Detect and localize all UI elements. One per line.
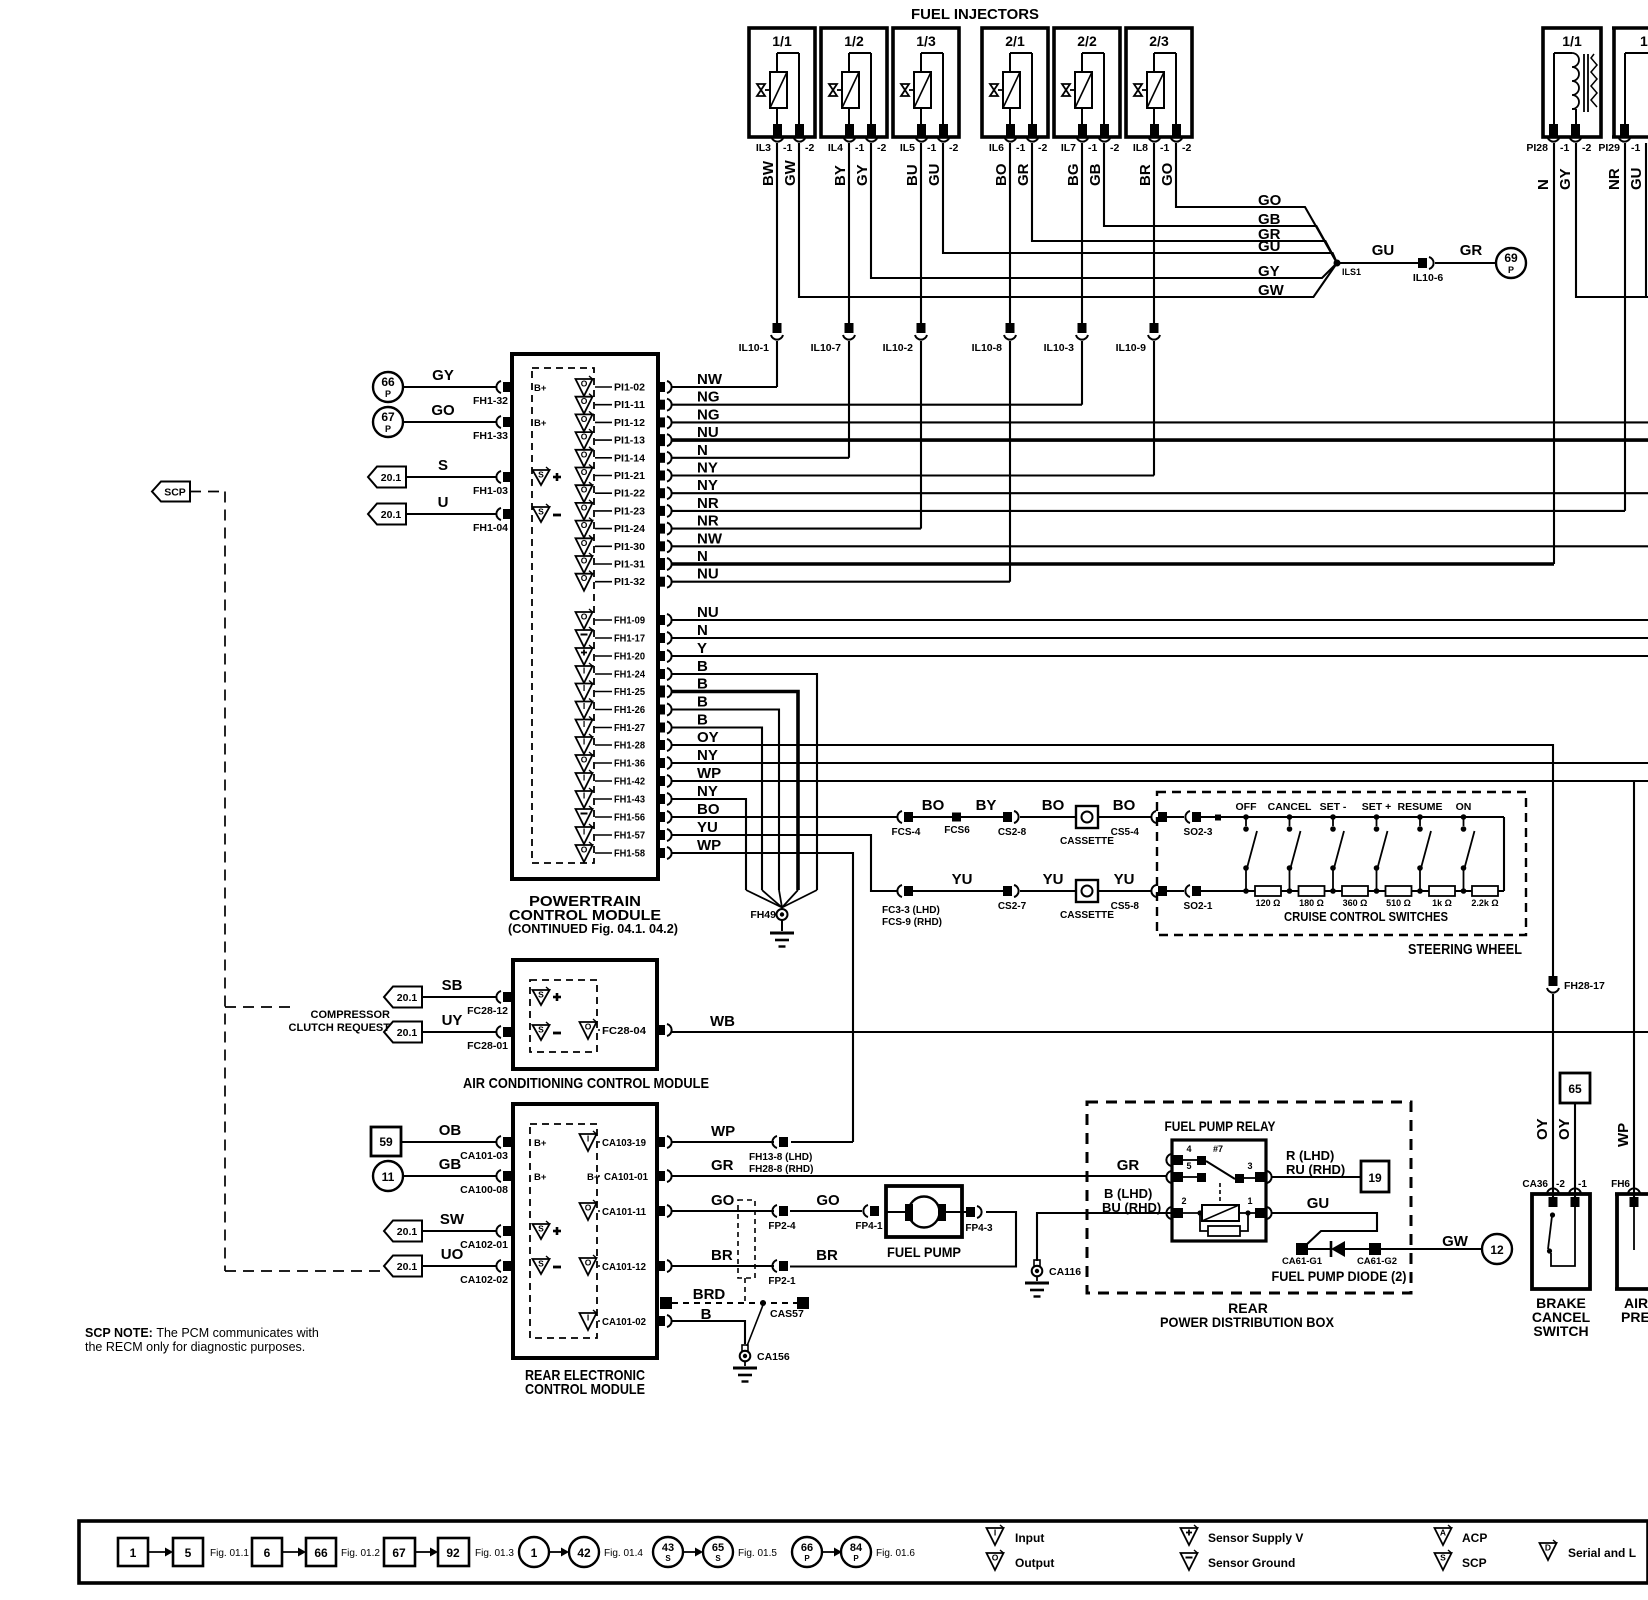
RECM pin CA101-01: [587, 1170, 672, 1183]
svg-text:SCP: SCP: [1462, 1556, 1487, 1570]
ground CA116: [1025, 1260, 1081, 1297]
node 20.1 S: [368, 467, 406, 488]
svg-text:Serial and L: Serial and L: [1568, 1546, 1636, 1560]
svg-text:YU: YU: [1114, 871, 1135, 888]
svg-text:FH1-24: FH1-24: [614, 669, 645, 681]
connector CA100-08: [460, 1170, 512, 1196]
wire R/RU relay pin 3 to 19: [1271, 1176, 1361, 1178]
wire injector pin -1 to IL10-2: [920, 143, 922, 323]
svg-text:FCS6: FCS6: [944, 825, 970, 836]
note SCP NOTE: [85, 1326, 319, 1354]
connector CS2-8: [998, 811, 1027, 838]
op PCM box: [512, 354, 658, 879]
svg-text:CS5-8: CS5-8: [1111, 901, 1140, 912]
svg-text:-1: -1: [1578, 1179, 1587, 1190]
svg-text:CS2-7: CS2-7: [998, 901, 1027, 912]
wire GW diode to node 12: [1381, 1248, 1482, 1250]
wire N PI1-31 to coil PI28-1 (thick): [672, 562, 1554, 566]
svg-text:CLUTCH REQUEST: CLUTCH REQUEST: [289, 1022, 391, 1034]
svg-text:FC28-04: FC28-04: [602, 1025, 646, 1037]
svg-text:-2: -2: [805, 142, 814, 154]
svg-text:-1: -1: [783, 142, 792, 154]
svg-text:360 Ω: 360 Ω: [1343, 898, 1368, 908]
svg-text:CANCEL: CANCEL: [1268, 801, 1312, 813]
PCM pin PI1-30 (NW): [576, 535, 672, 555]
label REAR POWER DISTRIBUTION BOX: [1160, 1300, 1335, 1330]
node 12: [1482, 1234, 1512, 1264]
wire SB to FC28-12: [422, 996, 497, 998]
wire GO CA101-11 to FP2-4: [671, 1210, 774, 1212]
relay: fuel pump relay: [1165, 1118, 1277, 1241]
wire B FH1-27 to ground fan: [672, 728, 762, 891]
svg-text:CA116: CA116: [1049, 1266, 1081, 1278]
svg-text:BU: BU: [904, 164, 921, 186]
svg-text:PI1-32: PI1-32: [614, 576, 645, 588]
A/C control module box: [513, 960, 657, 1069]
diode CA61 fuel pump diode: [1282, 1241, 1397, 1267]
svg-text:O: O: [581, 396, 588, 406]
brake cancel switch (CA36): [1522, 1179, 1590, 1289]
svg-text:I: I: [583, 827, 585, 837]
wire BO FCS-4 to FCS6: [913, 816, 952, 818]
wire injector pin -1 to IL10-3: [1081, 143, 1083, 323]
splice FCS6: [944, 813, 970, 837]
svg-text:2.2k Ω: 2.2k Ω: [1471, 898, 1498, 908]
svg-text:66: 66: [381, 375, 395, 389]
wire OB 59 to CA101-03: [401, 1141, 497, 1143]
svg-text:RESUME: RESUME: [1398, 801, 1443, 813]
svg-text:B: B: [701, 1306, 712, 1323]
svg-text:Input: Input: [1015, 1531, 1044, 1545]
PCM pin FH1-43 (NY): [576, 788, 672, 808]
svg-text:GO: GO: [1258, 192, 1282, 209]
connector FH1-33: [473, 416, 512, 442]
connector SO2-1: [1167, 885, 1213, 912]
svg-text:NY: NY: [697, 460, 718, 477]
svg-text:OB: OB: [439, 1122, 462, 1139]
cruise control switches dashed box: [1157, 792, 1526, 935]
wire YU FC3-3 to CS2-7: [913, 890, 1003, 892]
wire NY FH1-36 to right edge: [672, 762, 1648, 764]
svg-text:65: 65: [1568, 1082, 1582, 1096]
fuel pump: [886, 1186, 962, 1260]
PCM pin PI1-14 (N): [576, 447, 672, 467]
svg-text:NW: NW: [697, 530, 723, 547]
svg-text:-2: -2: [1182, 142, 1191, 154]
svg-text:CA61-G2: CA61-G2: [1357, 1256, 1397, 1267]
switch SET +: [1362, 801, 1391, 894]
legend ACP symbol: [1435, 1525, 1488, 1545]
air pressure switch (FH6) partial: [1611, 1179, 1648, 1325]
fuel injector 1/3 (IL5): [893, 28, 959, 154]
svg-text:I: I: [994, 1528, 996, 1538]
wire GU ILS1 to IL10-6: [1340, 262, 1418, 264]
svg-text:Fig. 01.1: Fig. 01.1: [210, 1548, 249, 1559]
svg-text:GW: GW: [782, 159, 799, 186]
connector IL10-7: [811, 323, 855, 354]
svg-text:SB: SB: [442, 977, 463, 994]
svg-text:PI1-21: PI1-21: [614, 470, 645, 482]
PCM pin PI1-32 (NU): [576, 571, 672, 591]
svg-text:CASSETTE: CASSETTE: [1060, 909, 1114, 921]
wire B CA101-02 to ground CA156: [671, 1321, 745, 1344]
svg-text:P: P: [804, 1554, 810, 1563]
svg-text:69: 69: [1504, 251, 1518, 265]
rear electronic control module box: [513, 1104, 657, 1358]
svg-text:IL10-6: IL10-6: [1413, 272, 1444, 284]
svg-text:IL5: IL5: [900, 142, 915, 154]
svg-text:PI1-31: PI1-31: [614, 559, 645, 571]
ground FH49: [781, 920, 783, 931]
svg-text:FH13-8 (LHD): FH13-8 (LHD): [749, 1152, 812, 1163]
wire Y FH1-20 to right edge: [672, 655, 1648, 657]
svg-text:65: 65: [712, 1542, 724, 1554]
wire GU relay pin 1 to fuel pump diode: [1271, 1213, 1377, 1246]
svg-text:O: O: [581, 845, 588, 855]
svg-text:N: N: [1535, 179, 1552, 190]
sensor supply + symbol: [533, 990, 550, 1005]
wire IL10-3 down to PCM row: [1081, 341, 1083, 405]
svg-text:O: O: [581, 556, 588, 566]
RECM pin CA101-02: [580, 1310, 672, 1330]
svg-text:Y: Y: [697, 640, 707, 657]
svg-text:S: S: [438, 457, 448, 474]
svg-text:FH28-8 (RHD): FH28-8 (RHD): [749, 1164, 813, 1175]
connector FH1-04: [473, 508, 512, 534]
svg-text:FC3-3 (LHD): FC3-3 (LHD): [882, 905, 940, 916]
svg-text:STEERING WHEEL: STEERING WHEEL: [1408, 941, 1522, 958]
connector FC28-01: [467, 1026, 512, 1052]
svg-text:U: U: [438, 494, 449, 511]
svg-text:6: 6: [264, 1546, 271, 1560]
sensor ground - symbol: [533, 1025, 550, 1040]
svg-text:ACP: ACP: [1462, 1531, 1487, 1545]
wire injector pin -1 to IL10-8: [1009, 143, 1011, 323]
svg-text:P: P: [385, 424, 391, 434]
svg-text:IL10-2: IL10-2: [883, 342, 914, 354]
node 20.1 UY: [384, 1022, 422, 1043]
svg-text:O: O: [581, 449, 588, 459]
svg-text:I: I: [583, 683, 585, 693]
resistor 510 Ω: [1386, 886, 1412, 908]
wire NG PI1-12 to right edge: [672, 421, 1648, 423]
svg-text:12: 12: [1490, 1243, 1504, 1257]
svg-text:B+: B+: [534, 1172, 547, 1183]
wire WP FH1-42 to right edge: [672, 780, 1648, 782]
svg-text:CA100-08: CA100-08: [460, 1184, 508, 1196]
svg-text:SET +: SET +: [1362, 801, 1391, 813]
wire OY FH1-28 to brake cancel switch: [672, 745, 1553, 978]
svg-text:FCS-4: FCS-4: [892, 827, 921, 838]
svg-text:2/1: 2/1: [1005, 33, 1025, 49]
svg-text:1/1: 1/1: [1562, 33, 1582, 49]
svg-text:O: O: [581, 467, 588, 477]
svg-text:PRE: PRE: [1621, 1309, 1648, 1325]
svg-text:IL4: IL4: [828, 142, 843, 154]
node 67 P: [373, 407, 403, 437]
wire NR coil PI29-1 down to NR row: [1624, 143, 1626, 511]
svg-text:R (LHD): R (LHD): [1286, 1148, 1334, 1163]
svg-text:NY: NY: [697, 747, 718, 764]
svg-text:SCP: SCP: [164, 487, 186, 499]
connector FH13-8 / FH28-8: [749, 1136, 813, 1175]
svg-text:BY: BY: [976, 797, 997, 814]
wire injector pin -1 to IL10-7: [848, 143, 850, 323]
svg-text:IL10-7: IL10-7: [811, 342, 842, 354]
node 11: [373, 1161, 403, 1191]
connector FCS-4: [892, 811, 921, 838]
svg-text:4: 4: [1186, 1144, 1191, 1154]
cassette connector (bottom): [1060, 880, 1114, 921]
wire GB 11 to CA100-08: [403, 1175, 497, 1177]
wire injector pin -1 to IL10-9: [1153, 143, 1155, 323]
svg-text:-1: -1: [927, 142, 936, 154]
svg-text:NG: NG: [697, 389, 720, 406]
svg-text:BO: BO: [1113, 797, 1136, 814]
svg-text:PI28: PI28: [1526, 142, 1548, 154]
wire BO CS2-8 to cassette: [1020, 816, 1076, 818]
wire GW injector pin -2 to splice ILS1: [799, 143, 1337, 297]
wire SCP dashed bus: [190, 492, 380, 1272]
svg-text:FP4-1: FP4-1: [855, 1221, 883, 1232]
svg-text:O: O: [581, 502, 588, 512]
svg-text:1/3: 1/3: [916, 33, 936, 49]
svg-text:NU: NU: [697, 604, 719, 621]
svg-text:FC28-01: FC28-01: [467, 1040, 508, 1052]
svg-text:GO: GO: [1159, 162, 1176, 186]
svg-text:PI1-13: PI1-13: [614, 435, 645, 447]
svg-text:O: O: [581, 573, 588, 583]
svg-text:FUEL PUMP DIODE (2): FUEL PUMP DIODE (2): [1272, 1268, 1407, 1284]
svg-text:-1: -1: [1160, 142, 1169, 154]
svg-text:S: S: [538, 990, 544, 1000]
connector IL10-6: [1413, 257, 1444, 284]
svg-text:I: I: [583, 737, 585, 747]
wire GU injector pin -2 to splice ILS1: [943, 143, 1337, 263]
fuel injector 2/3 (IL8): [1126, 28, 1192, 154]
svg-text:-2: -2: [949, 142, 958, 154]
wire NU FH1-09 to right edge: [672, 619, 1648, 621]
wire BY FCS6 to CS2-8: [961, 816, 1003, 818]
svg-text:S: S: [665, 1554, 671, 1563]
svg-text:Fig. 01.4: Fig. 01.4: [604, 1548, 643, 1559]
node SCP: [152, 482, 190, 502]
svg-text:I: I: [583, 666, 585, 676]
svg-text:Fig. 01.5: Fig. 01.5: [738, 1548, 777, 1559]
svg-text:NR: NR: [1606, 168, 1623, 190]
svg-text:FH6: FH6: [1611, 1179, 1630, 1190]
svg-text:FH1-20: FH1-20: [614, 651, 645, 663]
svg-text:NR: NR: [697, 513, 719, 530]
wire NY PI1-21 to IL10-9: [672, 474, 1154, 476]
svg-text:ON: ON: [1456, 801, 1472, 813]
svg-text:O: O: [585, 1258, 592, 1268]
resistor 180 Ω: [1299, 886, 1325, 908]
svg-text:CONTROL MODULE: CONTROL MODULE: [525, 1381, 645, 1398]
svg-text:PI1-24: PI1-24: [614, 523, 645, 535]
sensor supply + symbol: [533, 470, 550, 485]
legend serial data symbol: [1540, 1540, 1637, 1560]
svg-text:GU: GU: [1628, 168, 1645, 191]
svg-text:GR: GR: [1015, 163, 1032, 186]
connector FH1-03: [473, 471, 512, 497]
legend sensor ground symbol: [1181, 1550, 1296, 1570]
svg-text:I: I: [587, 1313, 589, 1323]
fuel injector 1/2 (IL4): [821, 28, 887, 154]
svg-text:2/3: 2/3: [1149, 33, 1169, 49]
node 69 P: [1496, 248, 1526, 278]
svg-text:B+: B+: [534, 383, 547, 394]
svg-text:FCS-9 (RHD): FCS-9 (RHD): [882, 917, 942, 928]
svg-text:CA101-11: CA101-11: [602, 1206, 646, 1218]
svg-text:CS5-4: CS5-4: [1111, 827, 1140, 838]
PCM pin FH1-17 (N): [576, 627, 672, 647]
wire B FH1-26 to ground fan: [672, 710, 779, 891]
svg-text:42: 42: [577, 1546, 591, 1560]
svg-text:NR: NR: [697, 495, 719, 512]
PCM pin FH1-58 (WP): [576, 842, 672, 862]
svg-text:BO: BO: [1042, 797, 1065, 814]
svg-text:20.1: 20.1: [397, 992, 418, 1004]
svg-text:GY: GY: [432, 367, 454, 384]
wire UY to FC28-01: [422, 1031, 497, 1033]
svg-text:Sensor Supply V: Sensor Supply V: [1208, 1531, 1303, 1545]
svg-text:WP: WP: [697, 765, 721, 782]
node 66 P: [373, 372, 403, 402]
connector FC28-12: [467, 991, 512, 1017]
svg-text:GB: GB: [439, 1156, 462, 1173]
wire NU PI1-32 to IL10-8: [672, 581, 1010, 583]
svg-text:CRUISE CONTROL SWITCHES: CRUISE CONTROL SWITCHES: [1284, 909, 1448, 924]
node 20.1 SW: [384, 1221, 422, 1242]
svg-text:IL10-3: IL10-3: [1044, 342, 1075, 354]
svg-text:SO2-3: SO2-3: [1184, 827, 1213, 838]
PCM pin FH1-28 (OY): [576, 734, 672, 754]
wire B FH1-25 to ground fan (thick): [672, 692, 798, 891]
connector CA102-02: [460, 1260, 512, 1286]
svg-text:SET -: SET -: [1320, 801, 1347, 813]
svg-text:84: 84: [850, 1542, 863, 1554]
svg-text:S: S: [538, 507, 544, 517]
wire NW PI1-02 to IL10-1: [672, 386, 777, 388]
svg-text:FP4-3: FP4-3: [965, 1223, 993, 1234]
svg-text:OY: OY: [697, 729, 719, 746]
fuel injector 2/2 (IL7): [1054, 28, 1120, 154]
harness grommet (dashed): [738, 1200, 755, 1302]
svg-text:NY: NY: [697, 477, 718, 494]
svg-text:IL10-1: IL10-1: [739, 342, 770, 354]
svg-text:AIR CONDITIONING CONTROL MODUL: AIR CONDITIONING CONTROL MODULE: [463, 1075, 709, 1092]
svg-text:510 Ω: 510 Ω: [1386, 898, 1411, 908]
svg-text:GO: GO: [711, 1192, 735, 1209]
svg-text:NU: NU: [697, 566, 719, 583]
svg-text:FH1-25: FH1-25: [614, 686, 645, 698]
wire IL10-2 down to PCM row: [920, 341, 922, 529]
wire WP FH13-8 to PCM link: [791, 1141, 853, 1143]
wire N coil PI28-1 down to N row: [1553, 143, 1555, 564]
node 20.1 U: [368, 504, 406, 525]
svg-text:FH1-36: FH1-36: [614, 758, 645, 770]
svg-text:43: 43: [662, 1542, 674, 1554]
sensor ground - symbol: [533, 1259, 550, 1274]
svg-text:SO2-1: SO2-1: [1184, 901, 1213, 912]
svg-text:GB: GB: [1087, 163, 1104, 186]
svg-text:GR: GR: [1117, 1157, 1140, 1174]
svg-text:O: O: [581, 755, 588, 765]
svg-text:59: 59: [379, 1135, 393, 1149]
svg-text:IL7: IL7: [1061, 142, 1076, 154]
legend (43 S) to (65 S) Fig. 01.5: [653, 1537, 777, 1567]
connector IL10-1: [739, 323, 783, 354]
RECM pin CA103-19: [580, 1131, 672, 1151]
svg-text:Fig. 01.3: Fig. 01.3: [475, 1548, 514, 1559]
svg-text:WP: WP: [697, 837, 721, 854]
svg-text:D: D: [1545, 1543, 1551, 1553]
wire BRD dashed to CAS57: [660, 1286, 809, 1346]
sensor ground - symbol: [533, 507, 550, 522]
svg-text:BG: BG: [1065, 164, 1082, 187]
svg-text:20.1: 20.1: [397, 1226, 418, 1238]
connector CS5-8: [1111, 885, 1167, 912]
splice ILS1: [1334, 260, 1341, 267]
splice on rail: [1215, 815, 1221, 821]
svg-text:I: I: [583, 719, 585, 729]
svg-text:OY: OY: [1556, 1118, 1573, 1140]
svg-text:Fig. 01.2: Fig. 01.2: [341, 1548, 380, 1559]
legend (1) to (42) Fig. 01.4: [519, 1537, 643, 1567]
svg-text:1k Ω: 1k Ω: [1432, 898, 1452, 908]
PCM pin FH1-24 (B): [576, 663, 672, 683]
PCM pin PI1-31 (N): [576, 553, 672, 573]
fuel injector 1/1 (IL3): [749, 28, 815, 154]
connector IL10-9: [1116, 323, 1160, 354]
label BRAKE CANCEL SWITCH: [1532, 1295, 1591, 1339]
wire S to PCM FH1-03: [406, 476, 497, 478]
wire GO injector pin -2 to splice ILS1: [1176, 143, 1337, 263]
svg-text:FH1-32: FH1-32: [473, 395, 508, 407]
svg-text:5: 5: [1186, 1161, 1191, 1171]
svg-text:20.1: 20.1: [397, 1261, 418, 1273]
svg-text:BO: BO: [697, 801, 720, 818]
svg-text:N: N: [697, 622, 708, 639]
node 19: [1361, 1161, 1389, 1192]
connector FP4-1: [855, 1205, 883, 1232]
svg-text:-1: -1: [1016, 142, 1025, 154]
svg-text:B: B: [697, 694, 708, 711]
svg-text:11: 11: [382, 1170, 395, 1184]
svg-text:I: I: [583, 791, 585, 801]
svg-text:YU: YU: [952, 871, 973, 888]
PCM pin PI1-02 (NW): [576, 376, 672, 396]
svg-text:-1: -1: [1560, 142, 1569, 154]
svg-text:S: S: [715, 1554, 721, 1563]
svg-text:GY: GY: [1557, 168, 1574, 190]
svg-text:PI1-23: PI1-23: [614, 505, 645, 517]
wire U to PCM FH1-04: [406, 513, 497, 515]
svg-text:FH1-09: FH1-09: [614, 615, 645, 627]
svg-text:IL10-8: IL10-8: [972, 342, 1003, 354]
rail right link: [1503, 817, 1505, 891]
svg-text:FH49: FH49: [750, 909, 776, 921]
svg-text:B+: B+: [534, 1138, 547, 1149]
svg-text:FH1-27: FH1-27: [614, 722, 645, 734]
wire GO FP2-4 to FP4-1: [790, 1210, 862, 1212]
svg-text:-1: -1: [855, 142, 864, 154]
switch SET -: [1320, 801, 1347, 894]
sensor supply + symbol: [533, 1224, 550, 1239]
ground CA156: [733, 1345, 790, 1382]
svg-text:-2: -2: [1038, 142, 1047, 154]
